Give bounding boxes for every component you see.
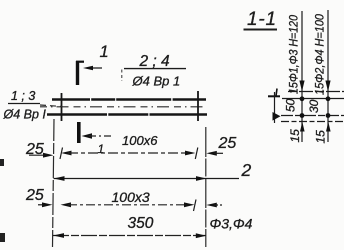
section: wire 2 vertical <box>327 10 329 142</box>
svg-text:Ø4 Вр 1: Ø4 Вр 1 <box>132 74 181 89</box>
svg-text:1-1: 1-1 <box>247 9 277 30</box>
dim row D: right arrow <box>196 233 207 238</box>
right extension line <box>205 127 207 247</box>
bar right end tick <box>197 91 199 121</box>
svg-text:25: 25 <box>25 187 44 204</box>
section: horizontal line A <box>288 91 344 93</box>
dim row C: main dim line with arrows <box>61 202 72 207</box>
section mark upper: top tick <box>76 61 84 63</box>
section: wire 2 down arrowhead <box>325 81 330 92</box>
svg-text:25: 25 <box>218 135 237 152</box>
dim row A: right outside arrow <box>206 151 217 156</box>
dim row D: left arrow <box>53 233 64 238</box>
section: left flag horizontal line <box>268 95 280 97</box>
svg-text:15: 15 <box>314 130 328 144</box>
dim row B: line for wire 2 <box>54 178 240 180</box>
dim row D: dim line 350 <box>53 235 206 237</box>
section: horizontal line B <box>282 98 344 100</box>
svg-text:1: 1 <box>98 142 105 156</box>
dashed tick left of denominator <box>121 70 123 82</box>
section: weld dot B2 <box>326 96 331 101</box>
section: left flag top tick <box>276 89 277 97</box>
section: weld dot C1 <box>300 113 305 118</box>
svg-text:Ø4 Вр I: Ø4 Вр I <box>3 108 47 122</box>
svg-text:100х3: 100х3 <box>112 189 150 205</box>
leader dash from left callout to bar axis <box>40 105 62 107</box>
svg-text:2 ; 4: 2 ; 4 <box>139 53 171 70</box>
section: wire 1 vertical <box>301 11 303 142</box>
bar top edge line <box>52 98 206 100</box>
section: left flag filled arrow <box>273 112 281 121</box>
section mark lower: arrow <box>82 133 93 138</box>
svg-text:30: 30 <box>307 99 321 113</box>
svg-text:15Φ2,Φ4 Н=100: 15Φ2,Φ4 Н=100 <box>313 14 327 95</box>
svg-text:Φ3,Φ4: Φ3,Φ4 <box>210 216 253 232</box>
left extension line <box>53 119 55 247</box>
svg-text:350: 350 <box>128 215 154 232</box>
section mark upper: thick bar <box>76 61 79 85</box>
left callout fraction line <box>8 103 40 105</box>
section: weld dot C2 <box>326 113 331 118</box>
dim row C: left outside arrow <box>38 204 47 206</box>
fraction line <box>124 68 186 70</box>
dim row C: right outside arrow <box>206 203 217 208</box>
section: horizontal line C <box>281 115 344 117</box>
svg-text:1: 1 <box>100 43 109 61</box>
edge artifact left middle <box>0 159 4 166</box>
section: wire 1 down arrowhead <box>299 81 304 92</box>
section: left flag vertical <box>274 92 276 123</box>
bar left end tick <box>61 93 63 121</box>
dim row A: main dim line with arrows <box>61 151 72 156</box>
section title underline <box>244 29 278 31</box>
svg-text:15: 15 <box>288 129 302 143</box>
svg-text:1 ; 3: 1 ; 3 <box>11 89 35 103</box>
section: horizontal line D <box>281 121 344 123</box>
svg-text:50: 50 <box>284 98 298 112</box>
dim row B: right arrow <box>196 176 207 181</box>
svg-text:100х6: 100х6 <box>122 133 158 148</box>
bar axis dash-dot line <box>40 106 204 108</box>
svg-text:2: 2 <box>241 160 252 180</box>
section: wire 1 up arrowhead <box>300 122 305 132</box>
dim row B: left arrow <box>54 176 65 181</box>
bar bottom edge line <box>47 113 207 115</box>
section: weld dot B1 <box>300 96 305 101</box>
dim row A: tick right <box>195 148 198 160</box>
dim row A: left outside arrow <box>29 154 48 156</box>
dim row A: tick left <box>60 148 63 160</box>
dim row C: tick right <box>194 200 197 212</box>
section mark lower: thick bar <box>77 122 81 143</box>
svg-text:15Φ1,Φ3 Н=120: 15Φ1,Φ3 Н=120 <box>287 15 301 94</box>
edge artifact left bottom <box>0 233 5 242</box>
section: wire 2 up arrowhead <box>326 122 331 132</box>
section mark upper: arrow <box>83 66 93 71</box>
